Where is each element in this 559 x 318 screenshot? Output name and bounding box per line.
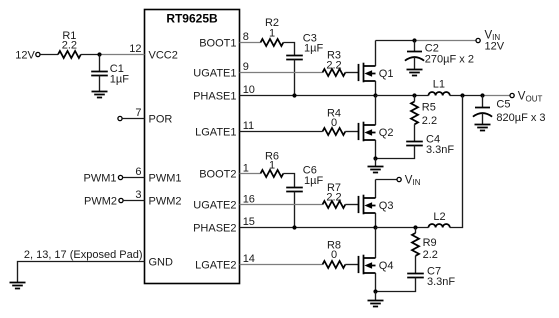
svg-text:VCC2: VCC2 — [149, 50, 178, 62]
svg-text:16: 16 — [243, 194, 255, 206]
svg-text:PHASE1: PHASE1 — [193, 91, 236, 103]
transistor Q3 — [359, 195, 394, 215]
wire L2 to VOUT line riser — [450, 96, 463, 228]
svg-text:12V: 12V — [485, 40, 505, 52]
capacitor C5 — [473, 96, 546, 125]
wire R7 to Q3 gate — [345, 204, 358, 206]
wire L1 to VOUT terminal — [450, 95, 483, 97]
wire R6 to C6 — [283, 174, 294, 188]
junction Q2 source / C4 / ground — [373, 156, 377, 160]
svg-text:2, 13, 17 (Exposed Pad): 2, 13, 17 (Exposed Pad) — [24, 249, 143, 261]
junction L2 riser on VOUT line — [460, 93, 464, 97]
svg-text:12V: 12V — [15, 49, 35, 61]
svg-text:0: 0 — [331, 249, 337, 261]
svg-text:Q1: Q1 — [379, 68, 394, 80]
svg-text:C2: C2 — [425, 42, 439, 54]
svg-text:Q2: Q2 — [379, 127, 394, 139]
junction R5 on PHASE1 — [412, 93, 416, 97]
svg-text:RT9625B: RT9625B — [166, 12, 218, 26]
svg-text:6: 6 — [135, 166, 141, 178]
pin 1 BOOT2 — [199, 163, 260, 181]
wire Q4 drain to PHASE2 — [375, 228, 377, 259]
junction Q3 source / Q4 drain — [373, 225, 377, 229]
svg-text:PWM2: PWM2 — [149, 195, 182, 207]
svg-text:L1: L1 — [433, 79, 445, 91]
svg-text:3.3nF: 3.3nF — [427, 276, 455, 288]
svg-text:L2: L2 — [433, 211, 445, 223]
svg-text:R9: R9 — [423, 237, 437, 249]
svg-text:LGATE2: LGATE2 — [195, 260, 236, 272]
wire Q1 drain to VIN rail — [375, 41, 377, 67]
wire Q1 source to PHASE1 — [375, 81, 377, 96]
node 12V input terminal — [15, 49, 40, 61]
ground G6 (Q4 source) — [368, 292, 384, 307]
svg-text:BOOT1: BOOT1 — [199, 38, 236, 50]
capacitor C7 — [407, 266, 455, 288]
wire Q4 source to ground node — [375, 273, 377, 292]
wire C4 to Q2 source node — [376, 146, 415, 159]
ground G1 (C1) — [92, 92, 108, 98]
svg-text:270µF x 2: 270µF x 2 — [425, 54, 474, 66]
resistor R1 — [58, 30, 81, 58]
wire R8 to Q4 gate — [345, 264, 358, 266]
svg-text:14: 14 — [243, 253, 255, 265]
transistor Q1 — [359, 63, 394, 83]
ground G2 (exposed pad) — [10, 283, 26, 289]
pin 14 LGATE2 — [195, 253, 322, 272]
svg-text:VOUT: VOUT — [518, 91, 543, 104]
svg-text:PHASE2: PHASE2 — [193, 223, 236, 235]
pin 11 LGATE1 — [195, 120, 322, 139]
wire R4 to Q2 gate — [345, 131, 358, 133]
node VIN terminal (lower) — [376, 174, 421, 187]
svg-text:9: 9 — [243, 61, 249, 73]
svg-text:PWM2: PWM2 — [84, 195, 117, 207]
junction C3/PHASE1 — [292, 93, 296, 97]
svg-text:1µF: 1µF — [110, 74, 129, 86]
resistor R5 — [411, 96, 437, 128]
svg-text:15: 15 — [243, 216, 255, 228]
svg-text:PWM1: PWM1 — [84, 172, 117, 184]
pins 2,13,17 GND exposed pad — [18, 249, 174, 282]
svg-text:C5: C5 — [496, 99, 510, 111]
capacitor C2 — [405, 41, 474, 70]
capacitor C1 — [91, 55, 129, 92]
wire C3 to PHASE1 node — [294, 60, 296, 96]
wire R1 to node A — [81, 54, 100, 56]
svg-text:2.2: 2.2 — [326, 59, 341, 71]
wire PHASE1 to L1 — [376, 95, 429, 97]
svg-text:Q3: Q3 — [379, 200, 394, 212]
junction C5 on VOUT line — [480, 93, 484, 97]
junction Q1 source / Q2 drain — [373, 93, 377, 97]
svg-text:GND: GND — [149, 257, 174, 269]
resistor R9 — [412, 228, 438, 261]
wire Q2 source to ground node — [375, 140, 377, 159]
svg-text:Q4: Q4 — [379, 260, 394, 272]
svg-text:1: 1 — [243, 163, 249, 175]
pin 3 PWM2 terminal — [84, 189, 182, 207]
node VIN terminal (top) — [476, 29, 505, 52]
junction C6/PHASE2 — [292, 225, 296, 229]
svg-text:11: 11 — [243, 120, 254, 132]
svg-text:VIN: VIN — [405, 174, 421, 187]
wire C6 to PHASE2 node — [294, 192, 296, 228]
pin 16 UGATE2 — [193, 194, 322, 212]
capacitor C4 — [406, 134, 454, 156]
svg-text:2.2: 2.2 — [422, 115, 437, 127]
ground G3 (C2) — [407, 70, 423, 76]
svg-text:UGATE1: UGATE1 — [193, 68, 236, 80]
junction R9 on PHASE2 — [413, 225, 417, 229]
svg-text:1µF: 1µF — [304, 175, 323, 187]
svg-text:10: 10 — [243, 84, 255, 96]
capacitor C6 — [286, 164, 323, 191]
svg-text:2.2: 2.2 — [423, 249, 438, 261]
junction C2 on VIN rail — [412, 38, 416, 42]
svg-text:POR: POR — [149, 114, 173, 126]
wire R5 to C4 — [414, 124, 416, 141]
svg-text:820µF x 3: 820µF x 3 — [496, 112, 545, 124]
wire 12V terminal to R1 — [40, 54, 58, 56]
svg-text:LGATE1: LGATE1 — [195, 127, 236, 139]
resistor R7 — [323, 182, 346, 208]
svg-text:7: 7 — [135, 107, 141, 119]
svg-text:R5: R5 — [422, 102, 436, 114]
inductor L2 — [429, 211, 450, 228]
svg-text:PWM1: PWM1 — [149, 172, 182, 184]
svg-text:2.2: 2.2 — [326, 192, 341, 204]
transistor Q2 — [359, 122, 394, 142]
pin 7 POR terminal — [118, 107, 172, 126]
svg-text:1: 1 — [269, 28, 275, 40]
node VOUT terminal — [510, 91, 542, 104]
resistor R6 — [261, 151, 284, 178]
resistor R4 — [323, 107, 346, 135]
svg-text:1: 1 — [269, 160, 275, 172]
wire R2 to C3 — [283, 43, 294, 56]
resistor R8 — [323, 240, 346, 268]
svg-text:BOOT2: BOOT2 — [199, 169, 236, 181]
pin 6 PWM1 terminal — [84, 166, 182, 184]
pin 15 PHASE2 — [193, 216, 375, 235]
svg-text:UGATE2: UGATE2 — [193, 200, 236, 212]
ground G4 (Q2 source) — [368, 159, 384, 173]
svg-text:1µF: 1µF — [304, 43, 323, 55]
wire VIN to Q3 drain — [375, 180, 377, 199]
wire node A to pin 12 VCC2 — [100, 54, 145, 56]
wire PHASE2 to L2 — [376, 227, 429, 229]
ground G5 (C5) — [475, 125, 491, 131]
resistor R3 — [323, 50, 346, 76]
wire C7 to Q4 source node — [376, 278, 416, 292]
junction node A — [97, 52, 101, 56]
VIN rail wire — [376, 40, 415, 42]
inductor L1 — [429, 79, 450, 96]
wire R3 to Q1 gate — [345, 72, 358, 74]
pin 9 UGATE1 — [193, 61, 322, 80]
wire R9 to C7 — [415, 256, 417, 274]
pin 10 PHASE1 — [193, 84, 375, 103]
svg-text:12: 12 — [129, 43, 141, 55]
transistor Q4 — [359, 255, 394, 275]
junction Q4 source / C7 / ground — [373, 289, 377, 293]
wire Q2 drain to PHASE1 — [375, 96, 377, 126]
svg-text:0: 0 — [331, 117, 337, 129]
capacitor C3 — [286, 33, 323, 60]
svg-text:3: 3 — [135, 189, 141, 201]
resistor R2 — [261, 17, 284, 46]
svg-text:2.2: 2.2 — [62, 40, 77, 52]
pin 8 BOOT1 — [199, 31, 260, 50]
wire Q3 source to PHASE2 — [375, 213, 377, 228]
svg-text:8: 8 — [243, 31, 249, 43]
svg-text:3.3nF: 3.3nF — [426, 144, 454, 156]
IC U1 RT9625B body — [145, 10, 240, 284]
